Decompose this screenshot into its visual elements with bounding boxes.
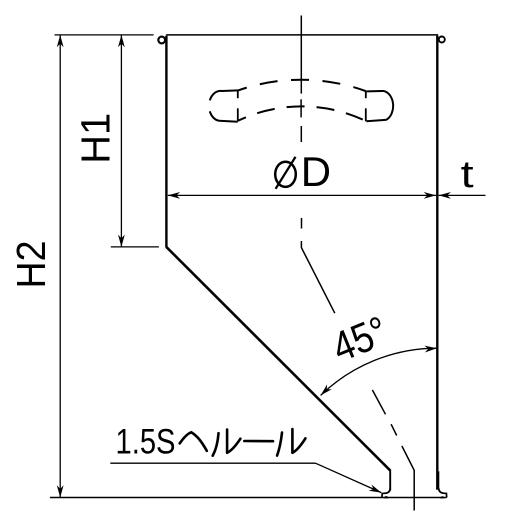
right bead circle <box>439 37 445 43</box>
phiD arrow left <box>168 192 180 199</box>
left ferrule flare <box>382 488 390 498</box>
svg-text:t: t <box>461 154 475 196</box>
left ferrule bead <box>384 496 389 498</box>
H1 arrow top <box>118 35 125 47</box>
center line vertical solid <box>300 16 302 94</box>
left bead circle <box>158 37 165 44</box>
phi symbol <box>275 162 296 187</box>
H1 arrow bottom <box>118 235 125 247</box>
leader line <box>316 463 382 492</box>
leader underline <box>110 462 315 464</box>
center line dash 5 <box>372 390 385 414</box>
H2 arrow top <box>57 35 64 47</box>
svg-text:H2: H2 <box>8 240 54 288</box>
dimension phiD line <box>168 194 436 196</box>
hidden slot right cap <box>366 91 393 121</box>
right ferrule inner line <box>438 471 440 489</box>
right ferrule flare <box>439 488 447 497</box>
top extension line <box>55 34 154 36</box>
phiD arrow right <box>424 192 436 199</box>
center line dash 6 <box>391 424 397 435</box>
dimension H2 line <box>59 35 61 498</box>
hidden slot left cap <box>210 90 238 100</box>
leader arrow <box>369 484 383 495</box>
arc arrow lower <box>318 384 332 397</box>
katakana he <box>180 432 207 451</box>
dimension H1 line <box>120 35 122 247</box>
svg-text:1.5S: 1.5S <box>116 423 176 462</box>
hidden slot top arc <box>238 80 366 91</box>
H1 bottom extension line <box>111 246 159 248</box>
center line dash 3 <box>300 126 302 142</box>
right ferrule bead <box>440 496 444 498</box>
arc arrow upper <box>424 345 437 353</box>
svg-text:H1: H1 <box>73 113 119 164</box>
katakana ru 2 <box>277 433 282 456</box>
t arrow <box>439 192 451 199</box>
hidden slot bottom arc <box>238 106 366 121</box>
center line bottom segment <box>402 446 414 511</box>
outlet left wall <box>389 470 391 490</box>
katakana ru 1 <box>213 433 219 456</box>
cone diagonal <box>166 247 390 471</box>
45 degree arc <box>321 348 437 395</box>
right wall <box>436 36 438 490</box>
center line dash 4 <box>301 218 303 229</box>
center line bend segment <box>301 241 334 313</box>
H2 arrow bottom <box>57 485 64 497</box>
left wall <box>165 36 167 248</box>
dimension t line <box>439 194 486 196</box>
katakana long bar <box>244 440 273 443</box>
svg-text:D: D <box>301 148 331 195</box>
center line dash 2 <box>300 99 302 117</box>
left cap ticks <box>237 90 239 98</box>
right cap ticks <box>365 91 367 98</box>
bottom extension line <box>50 497 447 499</box>
vessel top edge <box>166 34 438 36</box>
